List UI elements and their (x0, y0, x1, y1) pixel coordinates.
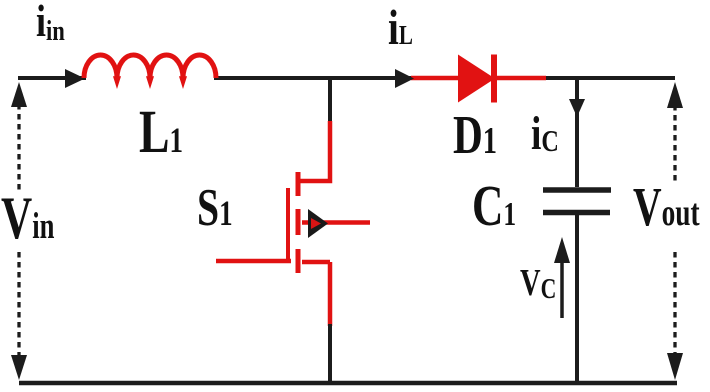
transistor S1 gate plate (286, 188, 290, 263)
transistor S1 gate lead (216, 259, 291, 264)
wire red anode lead (411, 76, 459, 81)
wire switch branch black lower (328, 324, 332, 383)
V_out down arrowhead (667, 353, 683, 380)
inductor L1 (84, 55, 216, 78)
arrowhead i_in (65, 69, 85, 88)
diode D1 cathode bar (491, 55, 497, 103)
arrowhead i_C (569, 99, 585, 117)
transistor S1 body arrow (308, 209, 328, 238)
wire switch branch black upper (328, 78, 332, 123)
wire switch branch red drain lead (299, 121, 330, 181)
V_out dashed arrow lower segment (673, 252, 676, 353)
V_out up arrowhead (667, 82, 683, 108)
wire top rail black middle part (214, 76, 413, 80)
inductor cusps (114, 77, 186, 87)
wire capacitor branch upper (575, 78, 579, 187)
V_in up arrowhead (11, 82, 27, 107)
V_in dashed arrow upper segment (17, 104, 20, 192)
transistor S1 source tick (296, 249, 301, 273)
wire red cathode lead (494, 76, 546, 81)
arrowhead i_L (395, 69, 414, 88)
wire top rail black right part (545, 76, 675, 80)
wire top rail black left part (18, 76, 86, 80)
capacitor C1 bottom plate (543, 210, 610, 216)
V_out dashed arrow upper segment (673, 105, 676, 183)
diode D1 triangle (458, 55, 495, 103)
arrow V_C (560, 255, 564, 318)
transistor S1 body tick (296, 209, 301, 235)
wire bottom rail (19, 381, 677, 386)
capacitor C1 top plate (543, 187, 611, 193)
transistor S1 drain tick (296, 172, 301, 196)
V_in down arrowhead (11, 355, 27, 380)
V_in dashed arrow lower segment (17, 252, 20, 358)
wire capacitor branch lower (575, 215, 579, 383)
transistor S1 source lead (302, 262, 330, 326)
transistor S1 body lead (302, 220, 370, 225)
